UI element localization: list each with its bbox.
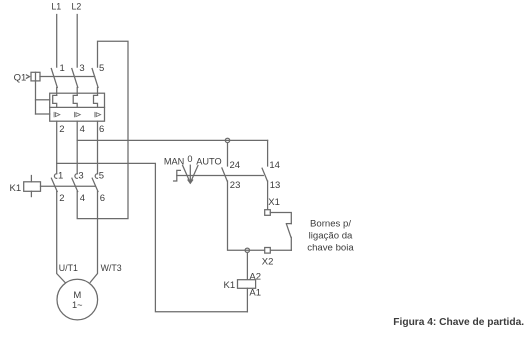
Q1 thermal element pole 3 xyxy=(73,95,77,107)
Q1 pin 2 xyxy=(59,124,64,135)
pin 13 xyxy=(270,180,281,191)
svg-text:AUTO: AUTO xyxy=(196,157,221,167)
wire X1 to float switch xyxy=(270,213,291,224)
label Q1 xyxy=(14,73,27,84)
svg-text:6: 6 xyxy=(99,124,104,135)
svg-text:4: 4 xyxy=(80,193,85,204)
K1 pin 3 xyxy=(78,171,83,182)
K1 blade 5-6 xyxy=(92,178,98,191)
Q1 pole 5 blade xyxy=(92,69,98,88)
svg-text:2: 2 xyxy=(59,193,64,204)
wire contact 13 to terminal X1 xyxy=(267,181,269,210)
Q1 pin 1 xyxy=(60,63,65,74)
svg-text:2: 2 xyxy=(59,124,64,135)
Q1 pin 6 xyxy=(99,124,104,135)
net L1 label xyxy=(51,2,61,12)
svg-text:W/T3: W/T3 xyxy=(101,263,122,273)
svg-text:ligação da: ligação da xyxy=(309,231,353,242)
Q1 pole 1 blade xyxy=(51,69,57,88)
Q1 mechanism bar xyxy=(40,76,95,78)
wire Q1-4 to K1-3 xyxy=(76,121,78,173)
net L2 label xyxy=(72,2,82,12)
svg-text:1: 1 xyxy=(60,63,65,74)
K1 pin 6 xyxy=(100,193,105,204)
selector wire to contacts xyxy=(177,175,263,177)
K1 blade 3-4 xyxy=(72,178,78,191)
terminal X2 xyxy=(262,248,274,268)
svg-text:6: 6 xyxy=(100,193,105,204)
Q1 pole 5 lead into box xyxy=(97,88,99,96)
svg-text:4: 4 xyxy=(80,124,85,135)
svg-text:K1: K1 xyxy=(10,183,22,194)
Q1 thermal element pole 5 xyxy=(94,95,98,107)
wire coil A1 down to return rail xyxy=(246,288,248,312)
motor M 1~ xyxy=(57,263,122,320)
svg-text:Q1: Q1 xyxy=(14,73,27,84)
svg-text:MAN: MAN xyxy=(164,156,184,166)
svg-text:chave boia: chave boia xyxy=(307,242,354,253)
breaker Q1 xyxy=(14,63,105,135)
svg-text:K1: K1 xyxy=(224,280,236,291)
Q1 magnetic element pole 1 xyxy=(54,112,60,117)
pin A1 xyxy=(249,288,261,299)
note: terminals for float switch xyxy=(307,218,354,253)
pin A2 xyxy=(249,272,261,283)
wire junction to contact 24 xyxy=(227,143,229,166)
Q1 pole 1 lead into box xyxy=(56,88,58,96)
motor body xyxy=(57,279,98,320)
aux contact 13-14 xyxy=(262,160,280,191)
Q1 pole 3 blade xyxy=(72,69,78,88)
svg-text:U/T1: U/T1 xyxy=(59,263,78,273)
junction node at coil branch xyxy=(245,248,249,252)
selector arrowhead xyxy=(188,180,193,183)
svg-text:Bornes p/: Bornes p/ xyxy=(310,218,351,229)
K1 blade 1-2 xyxy=(51,178,57,191)
K1 contact 1 fixed hook xyxy=(54,174,56,179)
svg-text:1: 1 xyxy=(58,171,63,182)
svg-text:24: 24 xyxy=(230,160,241,171)
blade 23-24 xyxy=(222,168,227,181)
blade 13-14 xyxy=(262,168,267,181)
wire junction to coil A2 xyxy=(246,253,248,280)
coil K1 (A1/A2) xyxy=(224,272,262,299)
wire Q1-2 to K1-1 xyxy=(56,121,58,173)
label K1 xyxy=(10,183,22,194)
svg-text:3: 3 xyxy=(79,63,84,74)
wire control feed from L2 rail xyxy=(77,139,267,141)
selector position MAN leg xyxy=(183,165,191,182)
Q1 overload/magnetic box xyxy=(50,93,105,121)
coil body xyxy=(238,280,256,289)
selector switch MAN-0-AUTO xyxy=(164,154,263,183)
Q1 thermal element pole 1 xyxy=(53,95,57,107)
wire contact 23 down to coil rail xyxy=(228,181,292,250)
svg-text:5: 5 xyxy=(99,171,104,182)
junction node on control feed xyxy=(225,138,229,142)
caption Figura 4 xyxy=(393,317,524,328)
wire control feed corner to contact 14 xyxy=(267,140,269,166)
svg-text:Figura 4: Chave de partida.: Figura 4: Chave de partida. xyxy=(393,317,524,328)
selector position AUTO leg xyxy=(190,165,198,182)
svg-text:X1: X1 xyxy=(268,197,280,208)
K1 coil symbol (mechanical) xyxy=(24,176,41,197)
svg-text:23: 23 xyxy=(230,180,241,191)
Q1 actuator box xyxy=(31,72,40,81)
svg-text:13: 13 xyxy=(270,180,281,191)
wire L1 drop to Q1 pole 1 xyxy=(56,15,58,68)
svg-text:0: 0 xyxy=(187,154,192,164)
Q1 magnetic element pole 3 xyxy=(75,112,81,117)
K1 mechanism bar xyxy=(41,185,96,187)
label K1 xyxy=(224,280,236,291)
float switch contact (chave boia) xyxy=(286,224,291,251)
svg-text:L1: L1 xyxy=(51,2,61,12)
K1 contact 5 fixed hook xyxy=(95,174,97,179)
svg-text:1~: 1~ xyxy=(72,300,82,310)
terminal label W/T3 xyxy=(101,263,122,273)
svg-text:3: 3 xyxy=(78,171,83,182)
pin 24 xyxy=(230,160,241,171)
K1 pin 2 xyxy=(59,193,64,204)
Q1 pin 5 xyxy=(99,63,104,74)
Q1 trip link to thermal row xyxy=(36,99,50,101)
wire K1-6 to motor W/T3 xyxy=(90,192,97,283)
Q1 actuator arrow xyxy=(26,75,29,78)
Q1 magnetic element pole 5 xyxy=(95,112,101,117)
Q1 pin 3 xyxy=(79,63,84,74)
wire Q1-6 to K1-5 xyxy=(97,121,99,173)
svg-text:M: M xyxy=(73,290,81,301)
K1 pin 1 xyxy=(58,171,63,182)
wire control return from L1 rail xyxy=(57,163,248,311)
svg-text:5: 5 xyxy=(99,63,104,74)
svg-text:L2: L2 xyxy=(72,2,82,12)
K1 pin 4 xyxy=(80,193,85,204)
svg-text:X2: X2 xyxy=(262,257,274,268)
svg-text:14: 14 xyxy=(269,160,280,171)
wire L2 drop to Q1 pole 3 xyxy=(76,15,78,68)
contactor K1 main contacts xyxy=(10,171,105,204)
aux contact 23-24 xyxy=(222,160,240,191)
terminal X1 xyxy=(265,197,280,215)
svg-text:A1: A1 xyxy=(249,288,261,299)
K1 contact 3 fixed hook xyxy=(75,174,77,179)
pin 14 xyxy=(269,160,280,171)
wire loop-back from K1 terminal 4 up to Q1 pole 5 xyxy=(77,41,128,218)
Q1 pin 4 xyxy=(80,124,85,135)
K1 pin 5 xyxy=(99,171,104,182)
Q1 trip linkage drop xyxy=(35,81,37,114)
pin 23 xyxy=(230,180,241,191)
wire K1-2 to motor U/T1 xyxy=(57,192,65,283)
Q1 trip link to magnetic row xyxy=(36,113,50,115)
terminal label U/T1 xyxy=(59,263,78,273)
selector position 0 leg xyxy=(189,165,191,183)
selector handle xyxy=(174,170,181,181)
Q1 pole 3 lead into box xyxy=(76,88,78,96)
